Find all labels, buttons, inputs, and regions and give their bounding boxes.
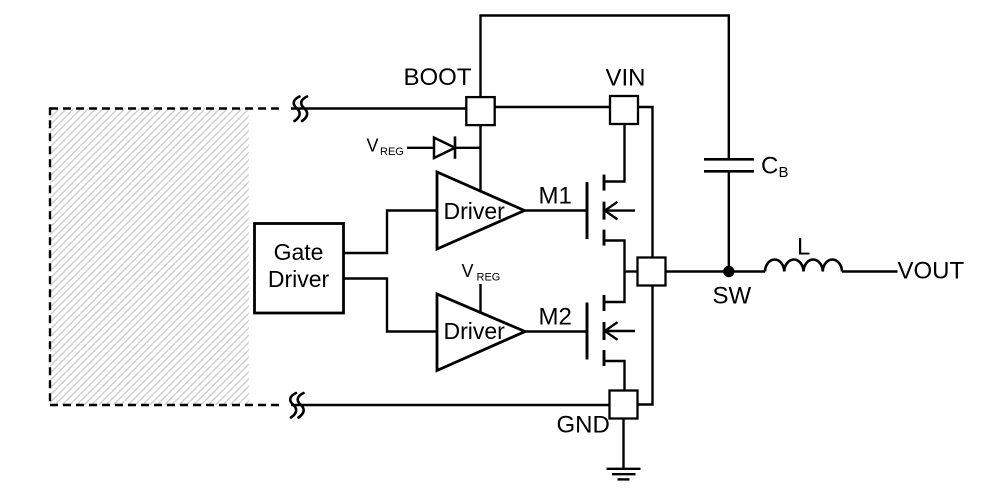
svg-text:V: V xyxy=(367,135,379,155)
svg-text:GND: GND xyxy=(557,412,610,439)
svg-text:VOUT: VOUT xyxy=(898,258,965,285)
svg-text:M2: M2 xyxy=(539,304,572,331)
svg-text:VIN: VIN xyxy=(606,65,646,92)
svg-text:B: B xyxy=(779,164,789,181)
svg-text:BOOT: BOOT xyxy=(404,64,472,91)
svg-text:Driver: Driver xyxy=(268,266,330,292)
svg-text:REG: REG xyxy=(477,272,501,284)
svg-text:SW: SW xyxy=(713,283,752,310)
svg-text:M1: M1 xyxy=(539,183,572,210)
svg-text:V: V xyxy=(462,261,474,281)
svg-text:Driver: Driver xyxy=(444,198,506,224)
svg-text:Gate: Gate xyxy=(274,239,324,265)
svg-text:REG: REG xyxy=(380,146,404,158)
svg-text:Driver: Driver xyxy=(444,318,506,344)
svg-text:L: L xyxy=(797,234,810,261)
svg-text:C: C xyxy=(761,153,778,180)
